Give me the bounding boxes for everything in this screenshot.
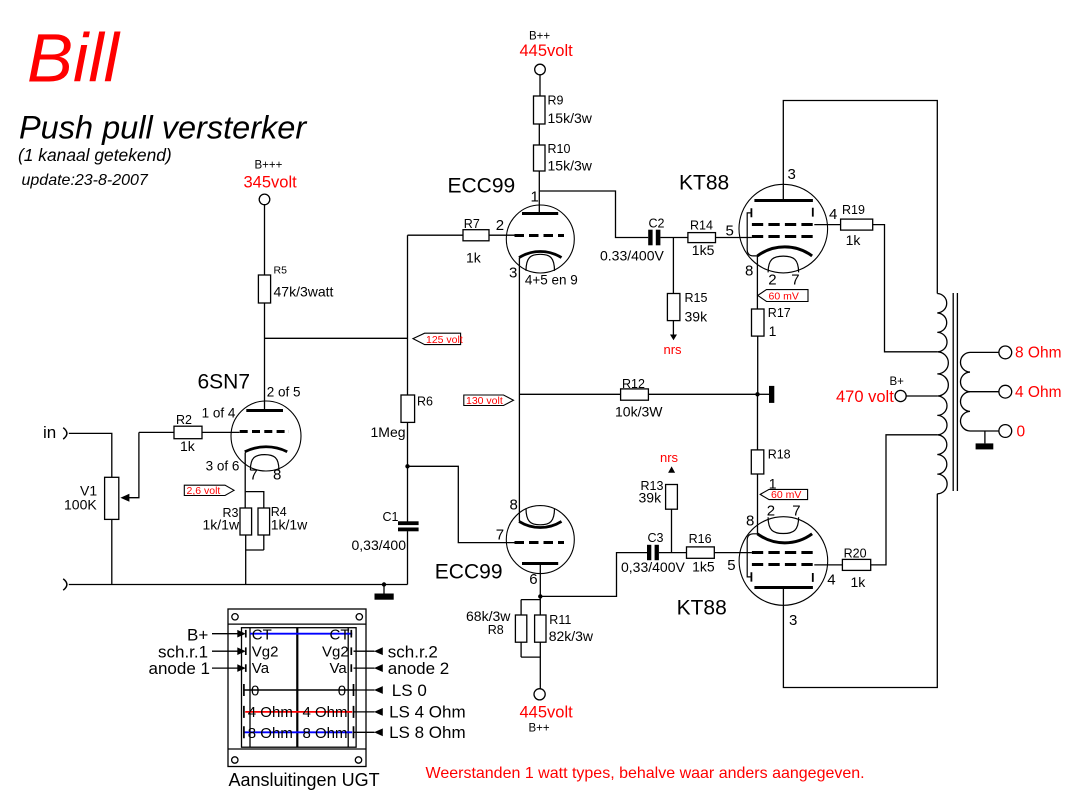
resistor R7 <box>463 230 489 241</box>
svg-text:KT88: KT88 <box>679 172 729 195</box>
svg-text:3: 3 <box>509 265 517 282</box>
resistor R19 <box>841 219 873 230</box>
svg-text:KT88: KT88 <box>677 597 727 620</box>
terminal B++ top <box>535 64 546 75</box>
terminal B++ bottom <box>534 689 545 700</box>
transformer core <box>953 293 957 491</box>
terminal 8 Ohm <box>999 346 1012 359</box>
node junction dot anode <box>538 594 542 598</box>
wire R17 to junction <box>757 336 759 394</box>
resistor R13 <box>666 485 678 510</box>
svg-text:1k: 1k <box>180 438 196 454</box>
resistor R6 <box>401 395 415 422</box>
ECC99 lower grid (dashed) <box>515 541 565 544</box>
svg-text:8 Ohm: 8 Ohm <box>1015 345 1062 362</box>
nrs arrow upper <box>670 335 677 341</box>
svg-text:0,33/400V: 0,33/400V <box>621 559 685 575</box>
ECC99 lower anode plate <box>522 562 558 565</box>
svg-text:7: 7 <box>496 527 504 544</box>
svg-text:R10: R10 <box>548 142 571 156</box>
tube ECC99 upper envelope <box>506 205 574 273</box>
svg-text:0: 0 <box>251 682 259 699</box>
svg-text:Vg2: Vg2 <box>252 644 279 661</box>
svg-text:6: 6 <box>529 571 537 588</box>
ECC99 lower heater arch <box>526 508 555 525</box>
tube 6SN7 envelope <box>231 401 301 471</box>
UGT screw bottom-right <box>355 757 361 763</box>
svg-text:R14: R14 <box>690 218 713 232</box>
wire R15 branch <box>672 238 674 294</box>
resistor R14 <box>688 233 716 243</box>
svg-text:ECC99: ECC99 <box>435 561 503 584</box>
svg-text:0: 0 <box>338 682 346 699</box>
svg-text:R18: R18 <box>768 448 791 462</box>
wire R6 to C1 <box>407 422 409 522</box>
flag 130 volt <box>464 395 514 406</box>
node junction dot <box>405 464 409 468</box>
input terminal <box>63 428 67 439</box>
svg-text:10k/3W: 10k/3W <box>615 403 663 419</box>
UGT CT link (blue) <box>250 633 352 635</box>
UGT inner box <box>242 628 357 748</box>
ECC99 upper cathode arc <box>519 252 561 258</box>
UGT inner column lines <box>250 628 348 748</box>
svg-text:2: 2 <box>496 217 504 234</box>
svg-text:2: 2 <box>767 503 775 520</box>
svg-text:4: 4 <box>827 572 835 589</box>
svg-text:3: 3 <box>788 166 796 183</box>
resistor R11 <box>535 615 546 642</box>
wire C2 to R14 <box>660 237 688 239</box>
KT88 lower cathode arc <box>757 534 812 543</box>
flag 60 mV upper <box>758 290 808 302</box>
UGT bottom strip line <box>228 748 366 750</box>
svg-text:R8: R8 <box>488 623 504 637</box>
6SN7 heater arch <box>250 455 279 470</box>
wire R3 to ground bus <box>246 535 264 585</box>
UGT top strip line <box>228 623 366 625</box>
ECC99 upper heater arch <box>526 254 555 271</box>
svg-text:B++: B++ <box>529 723 550 735</box>
svg-text:8: 8 <box>273 466 281 483</box>
chassis bar <box>769 386 774 403</box>
arrow LS 8 Ohm <box>354 731 375 733</box>
capacitor C1 <box>398 521 419 525</box>
ECC99 upper grid (dashed) <box>515 234 565 237</box>
wire 4 Ohm tap <box>970 391 999 393</box>
svg-text:5: 5 <box>727 557 735 574</box>
svg-text:8: 8 <box>510 497 518 514</box>
UGT screw bottom-left <box>232 757 238 763</box>
svg-text:82k/3w: 82k/3w <box>549 628 594 644</box>
wire R19 to UL tap upper <box>873 225 938 352</box>
svg-text:R11: R11 <box>549 613 571 627</box>
wire R7 left lead <box>408 234 464 236</box>
ECC99 upper anode plate <box>522 212 558 215</box>
wire anode node to R6 spine <box>265 337 408 339</box>
svg-text:C2: C2 <box>649 216 665 230</box>
wire R5 to 6SN7 anode <box>264 303 266 411</box>
wire ECC99 lower anode down <box>539 563 541 596</box>
wire R9 to R10 <box>538 124 540 145</box>
wire KT88 cathode to R17 <box>756 256 758 309</box>
svg-text:15k/3w: 15k/3w <box>548 158 593 174</box>
UGT 8 Ohm link (blue) <box>244 731 352 733</box>
wire R20 to UL tap lower <box>871 435 938 565</box>
svg-text:C1: C1 <box>383 510 399 524</box>
svg-text:Bill: Bill <box>27 20 121 97</box>
wire cathode line upper to lower <box>518 258 520 522</box>
capacitor C3 <box>647 545 651 560</box>
svg-text:anode 2: anode 2 <box>388 659 449 678</box>
svg-text:R9: R9 <box>548 94 564 108</box>
arrow sch.r.2 <box>354 650 375 652</box>
svg-text:345volt: 345volt <box>244 174 298 192</box>
KT88 upper anode plate <box>754 199 813 202</box>
svg-text:R2: R2 <box>176 413 192 427</box>
ECC99 lower cathode arc <box>519 521 561 527</box>
svg-text:1: 1 <box>769 323 777 339</box>
wire R14 to KT88 grid <box>716 237 752 239</box>
UGT screw top-right <box>356 614 362 620</box>
wire 6SN7 cathode down <box>244 453 246 509</box>
svg-text:0,33/400: 0,33/400 <box>352 537 407 553</box>
svg-text:470 volt: 470 volt <box>836 388 894 406</box>
wire R4 branch <box>246 492 264 550</box>
svg-text:445volt: 445volt <box>520 704 574 722</box>
wire junction to R18 <box>757 394 759 450</box>
svg-text:3: 3 <box>789 612 797 629</box>
KT88 upper control grid g1 (dashed) <box>752 235 814 238</box>
KT88 upper heater arch <box>768 256 799 272</box>
svg-text:nrs: nrs <box>664 342 683 357</box>
svg-text:1k5: 1k5 <box>692 242 715 258</box>
wire KT88 anode to transformer top <box>783 101 937 294</box>
wire KT88 lower anode to transformer bottom <box>783 494 937 688</box>
svg-text:R17: R17 <box>768 306 791 320</box>
svg-text:R15: R15 <box>685 291 708 305</box>
resistor R8 <box>515 615 526 642</box>
wire R13 branch <box>671 485 673 553</box>
terminal B+ <box>895 390 906 401</box>
svg-text:130 volt: 130 volt <box>466 395 503 407</box>
wire spine vertical <box>407 235 409 395</box>
svg-text:1k/1w: 1k/1w <box>271 517 308 533</box>
svg-text:anode 1: anode 1 <box>149 659 210 678</box>
terminal 0 <box>999 425 1012 438</box>
svg-text:445volt: 445volt <box>520 42 574 60</box>
svg-text:Va: Va <box>330 660 348 677</box>
svg-text:7: 7 <box>791 272 799 289</box>
terminal B+++ <box>259 194 270 205</box>
6SN7 anode plate <box>246 409 283 412</box>
svg-text:4 Ohm: 4 Ohm <box>248 704 293 721</box>
arrow sch.r.1 <box>212 650 239 652</box>
KT88 lower beam plates <box>751 572 812 582</box>
resistor R4 <box>258 508 270 535</box>
svg-text:LS 4 Ohm: LS 4 Ohm <box>389 703 466 722</box>
svg-text:4: 4 <box>829 206 837 223</box>
wire R7 to ECC99 grid <box>489 234 515 236</box>
svg-text:R19: R19 <box>842 203 865 217</box>
svg-text:0.33/400V: 0.33/400V <box>600 247 664 263</box>
UGT 0 link <box>244 689 354 691</box>
transformer primary winding <box>937 294 948 494</box>
svg-text:1k: 1k <box>846 232 862 248</box>
svg-text:LS 0: LS 0 <box>392 681 427 700</box>
svg-text:R16: R16 <box>689 532 712 546</box>
flag 125 volt <box>413 333 461 344</box>
resistor R2 <box>174 426 202 439</box>
resistor R20 <box>842 559 870 570</box>
tube KT88 lower envelope <box>739 517 828 606</box>
tube KT88 upper envelope <box>739 184 828 273</box>
ground bus terminal <box>63 579 67 590</box>
svg-text:B++: B++ <box>529 31 550 43</box>
svg-text:4 Ohm: 4 Ohm <box>303 704 348 721</box>
svg-text:5: 5 <box>726 223 734 240</box>
KT88 lower heater arch <box>768 517 799 533</box>
svg-text:0: 0 <box>1017 423 1026 440</box>
svg-text:in: in <box>43 423 56 442</box>
resistor R3 <box>240 508 252 535</box>
ground symbol left <box>382 582 386 586</box>
ground bus wire <box>69 584 408 586</box>
wire V1 bottom to ground bus <box>111 519 113 584</box>
svg-text:39k: 39k <box>639 490 663 506</box>
arrow LS 0 <box>354 689 375 691</box>
KT88 lower control grid g1 (dashed) <box>752 551 814 554</box>
arrow anode 2 <box>354 667 375 669</box>
svg-text:update:23-8-2007: update:23-8-2007 <box>22 172 149 189</box>
flag 60 mV lower <box>760 489 807 499</box>
flag 2,6 volt <box>184 485 234 495</box>
capacitor C2 <box>648 230 652 246</box>
resistor R5 <box>258 275 270 303</box>
svg-text:7: 7 <box>792 503 800 520</box>
wire R12 run <box>519 393 757 395</box>
svg-text:2 of 5: 2 of 5 <box>267 384 301 399</box>
wire R15 to nrs <box>672 321 674 335</box>
svg-text:Vg2: Vg2 <box>322 644 349 661</box>
svg-text:CT: CT <box>330 627 350 644</box>
wire anode node to C3 <box>540 553 647 597</box>
6SN7 grid (dashed) <box>240 430 289 433</box>
wire node to lower ECC99 grid <box>408 466 515 542</box>
V1 wiper arrow <box>129 432 139 497</box>
svg-text:39k: 39k <box>685 309 709 325</box>
wire anode node to C2 <box>539 191 648 238</box>
svg-text:Weerstanden 1 watt types, beha: Weerstanden 1 watt types, behalve waar a… <box>426 765 865 782</box>
svg-text:1k/1w: 1k/1w <box>203 517 240 533</box>
svg-text:47k/3watt: 47k/3watt <box>274 284 334 300</box>
svg-text:Va: Va <box>252 660 270 677</box>
wire g2 to R19 <box>814 224 840 226</box>
svg-text:8 Ohm: 8 Ohm <box>303 725 348 742</box>
wire B+++ to R5 <box>264 205 266 275</box>
resistor R12 <box>621 389 649 400</box>
svg-text:68k/3w: 68k/3w <box>466 608 511 624</box>
KT88 lower anode plate <box>754 586 813 589</box>
svg-text:R7: R7 <box>464 217 480 231</box>
UGT pin ticks <box>244 630 354 738</box>
resistor R18 <box>751 450 764 474</box>
ground symbol secondary <box>984 431 986 443</box>
svg-text:R12: R12 <box>622 377 645 391</box>
svg-text:1k5: 1k5 <box>692 558 715 574</box>
nrs arrow lower <box>668 466 675 472</box>
svg-text:125 volt: 125 volt <box>426 334 463 346</box>
KT88 lower screen grid g2 (dashed) <box>752 563 814 566</box>
wire input to V1 top <box>69 433 112 477</box>
wire R18 to KT88 lower cathode <box>757 474 759 534</box>
wire 8 Ohm tap <box>970 351 999 353</box>
svg-text:LS 8 Ohm: LS 8 Ohm <box>389 723 466 742</box>
svg-text:(1 kanaal getekend): (1 kanaal getekend) <box>18 145 172 165</box>
svg-text:3 of 6: 3 of 6 <box>206 459 240 474</box>
terminal 4 Ohm <box>999 385 1012 398</box>
resistor R17 <box>752 309 765 336</box>
KT88 upper cathode arc <box>757 247 812 256</box>
svg-text:15k/3w: 15k/3w <box>548 110 593 126</box>
svg-text:1k: 1k <box>851 574 867 590</box>
svg-text:2,6 volt: 2,6 volt <box>187 485 221 497</box>
KT88 upper screen grid g2 (dashed) <box>752 223 814 226</box>
svg-text:1k: 1k <box>466 250 482 266</box>
UGT screw top-left <box>232 614 238 620</box>
svg-text:60 mV: 60 mV <box>769 290 799 302</box>
svg-text:8: 8 <box>745 263 753 280</box>
transformer secondary winding 4-0 <box>960 392 970 431</box>
svg-text:R6: R6 <box>417 395 433 409</box>
resistor R15 <box>667 294 680 321</box>
wire R10 to ECC99 anode <box>538 171 540 213</box>
svg-text:1Meg: 1Meg <box>371 424 406 440</box>
wire R8/R11 brackets <box>521 596 540 688</box>
wire g2 lower to R20 <box>814 564 842 566</box>
svg-text:4 Ohm: 4 Ohm <box>1015 384 1062 401</box>
node junction dot R17/R18 <box>755 392 759 396</box>
UGT outer box <box>228 609 366 767</box>
svg-text:60 mV: 60 mV <box>771 489 801 501</box>
svg-text:6SN7: 6SN7 <box>198 371 251 394</box>
svg-text:ECC99: ECC99 <box>448 175 516 198</box>
wire R16 to KT88 lower grid <box>714 552 752 554</box>
arrow B+ <box>212 633 239 635</box>
KT88 upper beam plates <box>751 208 812 218</box>
potentiometer V1 <box>105 477 119 519</box>
arrow LS 4 Ohm <box>354 711 375 713</box>
resistor R16 <box>687 547 715 558</box>
wire V1 wiper to R2 <box>139 431 174 433</box>
KT88 upper beam plate hook <box>747 213 757 256</box>
UGT center divider <box>296 628 298 748</box>
svg-text:B+++: B+++ <box>255 160 283 172</box>
svg-text:2: 2 <box>768 272 776 289</box>
svg-text:nrs: nrs <box>660 450 679 465</box>
UGT 4 Ohm link (red) <box>245 711 352 713</box>
svg-text:Push pull versterker: Push pull versterker <box>19 109 307 145</box>
tube ECC99 lower envelope <box>506 506 574 574</box>
svg-text:8 Ohm: 8 Ohm <box>248 725 293 742</box>
svg-text:7: 7 <box>250 466 258 483</box>
wire junction chassis stub <box>758 393 770 395</box>
wire 0 tap <box>970 430 999 432</box>
arrow anode 1 <box>212 667 239 669</box>
resistor R9 <box>534 96 546 124</box>
wire R2 to 6SN7 grid <box>202 431 240 433</box>
svg-text:1 of 4: 1 of 4 <box>202 405 236 420</box>
svg-text:Aansluitingen UGT: Aansluitingen UGT <box>229 770 380 790</box>
svg-text:1: 1 <box>531 189 539 206</box>
svg-text:R5: R5 <box>274 265 288 277</box>
svg-text:8: 8 <box>746 513 754 530</box>
svg-text:B+: B+ <box>890 376 905 388</box>
svg-text:R20: R20 <box>844 546 867 560</box>
svg-text:CT: CT <box>252 627 272 644</box>
svg-text:100K: 100K <box>64 497 97 513</box>
wire B+ tap <box>906 395 937 397</box>
transformer secondary winding 8-4 <box>960 352 970 391</box>
resistor R10 <box>534 145 546 171</box>
wire C3 to R16 <box>659 552 687 554</box>
wire B++ to R9 <box>539 75 541 96</box>
6SN7 cathode arc <box>245 447 287 452</box>
KT88 lower beam plate hook <box>747 534 757 577</box>
svg-text:4+5 en 9: 4+5 en 9 <box>525 273 578 288</box>
svg-text:C3: C3 <box>648 531 664 545</box>
wire C1 to ground bus <box>407 531 409 584</box>
